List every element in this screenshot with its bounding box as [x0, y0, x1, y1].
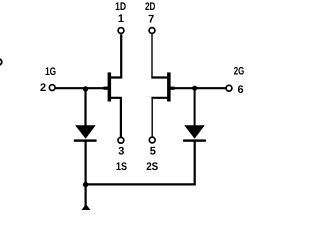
svg-text:2: 2 — [40, 82, 46, 94]
svg-text:1S: 1S — [116, 161, 127, 173]
svg-text:5: 5 — [150, 145, 156, 157]
svg-text:7: 7 — [148, 13, 154, 25]
svg-text:1D: 1D — [115, 1, 126, 13]
svg-text:1G: 1G — [45, 66, 56, 78]
svg-text:2G: 2G — [234, 66, 245, 78]
svg-text:3: 3 — [118, 145, 124, 157]
svg-text:2D: 2D — [145, 1, 156, 13]
svg-text:6: 6 — [238, 84, 244, 96]
svg-text:1: 1 — [118, 13, 124, 25]
svg-text:2S: 2S — [146, 161, 158, 173]
